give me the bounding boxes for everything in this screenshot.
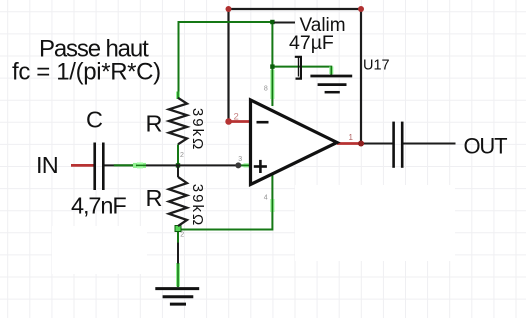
- svg-text:U17: U17: [363, 57, 390, 73]
- svg-text:R: R: [146, 185, 163, 211]
- svg-text:1: 1: [349, 133, 354, 142]
- svg-text:39kΩ: 39kΩ: [189, 108, 206, 151]
- svg-text:2: 2: [180, 152, 184, 159]
- svg-text:R: R: [146, 110, 163, 136]
- svg-text:2: 2: [234, 112, 239, 123]
- svg-text:2: 2: [180, 232, 184, 239]
- svg-text:fc = 1/(pi*R*C): fc = 1/(pi*R*C): [12, 58, 161, 85]
- svg-text:39kΩ: 39kΩ: [189, 184, 206, 227]
- svg-text:C: C: [86, 106, 103, 132]
- svg-text:4: 4: [264, 194, 268, 201]
- svg-text:4,7nF: 4,7nF: [71, 193, 126, 219]
- svg-text:OUT: OUT: [464, 133, 508, 158]
- svg-text:47µF: 47µF: [289, 32, 334, 54]
- svg-text:8: 8: [264, 85, 268, 92]
- svg-text:3: 3: [238, 156, 242, 163]
- svg-text:IN: IN: [36, 152, 58, 178]
